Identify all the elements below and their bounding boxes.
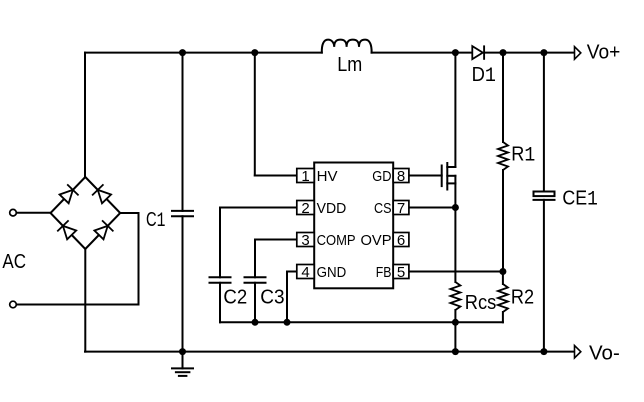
svg-text:GND: GND: [317, 264, 347, 281]
svg-text:AC: AC: [2, 251, 26, 273]
svg-text:R2: R2: [511, 287, 534, 309]
svg-text:C2: C2: [223, 287, 247, 309]
svg-text:COMP: COMP: [317, 232, 356, 249]
svg-text:GD: GD: [372, 168, 391, 185]
svg-text:C1: C1: [146, 209, 165, 233]
svg-text:C3: C3: [260, 287, 284, 309]
svg-text:R1: R1: [511, 144, 535, 168]
svg-text:2: 2: [301, 200, 309, 217]
svg-text:CE1: CE1: [562, 188, 597, 212]
svg-text:5: 5: [397, 264, 405, 281]
svg-text:HV: HV: [317, 168, 338, 185]
svg-text:FB: FB: [376, 264, 392, 281]
svg-text:VDD: VDD: [317, 200, 347, 217]
svg-text:D1: D1: [472, 64, 496, 88]
svg-text:Vo+: Vo+: [587, 42, 621, 64]
svg-text:Lm: Lm: [337, 54, 362, 76]
svg-text:CS: CS: [374, 200, 392, 217]
svg-text:OVP: OVP: [361, 232, 392, 249]
svg-text:Rcs: Rcs: [465, 292, 497, 314]
svg-text:Vo-: Vo-: [589, 343, 620, 365]
svg-text:4: 4: [301, 264, 309, 281]
svg-text:3: 3: [301, 232, 309, 249]
svg-text:8: 8: [397, 168, 405, 185]
svg-text:6: 6: [397, 232, 405, 249]
svg-text:1: 1: [301, 168, 309, 185]
svg-text:7: 7: [397, 200, 405, 217]
